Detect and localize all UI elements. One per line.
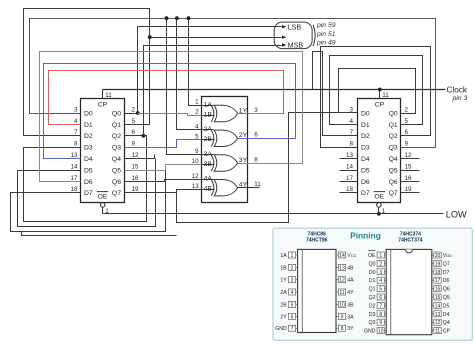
wire: bus drop to xor 2A — [177, 19, 202, 130]
register IC3 74HC374 (right) body — [358, 99, 401, 203]
xor G1 input wire 1B — [202, 115, 215, 117]
svg-text:pin 59: pin 59 — [316, 22, 336, 29]
svg-text:3B: 3B — [347, 302, 354, 308]
svg-text:3A: 3A — [347, 314, 354, 320]
svg-text:D7: D7 — [84, 190, 93, 197]
DIP20 left pin 4 box — [377, 277, 384, 283]
wire: IC3 Q5 stub — [401, 170, 420, 172]
svg-text:5: 5 — [291, 302, 294, 308]
svg-text:4: 4 — [74, 118, 78, 125]
net: IC3 Q1 wrap to IC3 D1 — [330, 56, 423, 125]
svg-text:10: 10 — [378, 329, 384, 335]
xor gate G4 input back-arc — [211, 180, 214, 196]
xor G1 input wire 1A — [202, 105, 214, 107]
svg-text:D7: D7 — [443, 270, 450, 276]
svg-text:18: 18 — [435, 270, 441, 276]
svg-text:D3: D3 — [369, 312, 376, 318]
junction Q1 tap to pin 51 arrow — [148, 35, 152, 39]
DIP20 left pin 10 box — [377, 328, 384, 334]
svg-text:pin 3: pin 3 — [452, 95, 468, 102]
xor gate G4 shape — [214, 180, 237, 196]
svg-text:13: 13 — [346, 152, 354, 159]
xor G2 input wire 2A — [202, 129, 214, 131]
DIP14 left pin 5 box — [288, 301, 295, 307]
svg-text:Q6: Q6 — [443, 287, 450, 293]
svg-text:2Y: 2Y — [280, 314, 287, 320]
xor G2 input wire 2B — [202, 139, 215, 141]
svg-text:Clock: Clock — [447, 85, 468, 94]
svg-text:20: 20 — [435, 253, 441, 259]
DIP14 left pin 2 box — [288, 264, 295, 270]
svg-text:Q4: Q4 — [389, 156, 398, 163]
svg-text:8: 8 — [341, 326, 344, 332]
wire: IC3 Q4 stub — [401, 158, 420, 160]
net: IC3 Q2 wrap to IC3 D3 — [321, 47, 431, 148]
svg-text:Q3: Q3 — [112, 145, 121, 152]
svg-text:16: 16 — [405, 175, 413, 182]
svg-text:D5: D5 — [84, 167, 93, 174]
wire: IC3 D2 feed drop — [313, 52, 358, 136]
xor gate G2 input back-arc — [211, 130, 214, 146]
junction bus to 3A feed — [165, 16, 169, 20]
svg-text:16: 16 — [435, 287, 441, 293]
net: xor 2Y to IC1 D4 (blue loop) — [44, 64, 296, 159]
IC1 OE inversion bubble — [100, 203, 105, 208]
junction bus to 2A feed — [175, 16, 179, 20]
svg-text:9: 9 — [341, 314, 344, 320]
svg-text:1B: 1B — [280, 265, 287, 271]
svg-text:2: 2 — [379, 261, 382, 267]
IC1 pin 11 clock stub — [102, 90, 104, 99]
svg-text:19: 19 — [435, 261, 441, 267]
svg-text:1: 1 — [195, 99, 199, 106]
wire: Q0 to xor 1B (red) — [138, 114, 202, 116]
svg-text:D0: D0 — [361, 110, 370, 117]
svg-text:17: 17 — [435, 278, 441, 284]
svg-text:12: 12 — [405, 152, 413, 159]
svg-text:8: 8 — [349, 141, 353, 148]
svg-text:D2: D2 — [361, 133, 370, 140]
connector brace — [313, 25, 315, 46]
svg-text:11: 11 — [435, 329, 440, 335]
svg-text:13: 13 — [339, 265, 345, 271]
svg-text:Q2: Q2 — [369, 295, 376, 301]
wire: Q7 drop, bottom run right, up to IC3 D0 line — [177, 113, 358, 223]
svg-text:4B: 4B — [347, 265, 354, 271]
arrowhead LSB — [282, 25, 286, 28]
svg-text:1B: 1B — [204, 111, 213, 118]
svg-text:8: 8 — [254, 156, 258, 163]
DIP20 left pin 6 box — [377, 294, 384, 300]
junction bus to 1A feed — [187, 16, 191, 20]
DIP14 left pin 7 box — [288, 325, 295, 331]
svg-text:15: 15 — [132, 163, 140, 170]
xor-pack IC2 74HC86 body — [202, 97, 248, 203]
svg-text:9: 9 — [132, 141, 136, 148]
svg-text:D3: D3 — [361, 145, 370, 152]
wire: xor 4Y output stub — [238, 187, 260, 189]
net: xor 1Y to IC1 D1 (red loop) — [49, 71, 284, 125]
svg-text:Q0: Q0 — [389, 110, 398, 117]
wire: clock line from IC1 CP across to Clock label — [103, 89, 446, 91]
svg-text:5: 5 — [405, 118, 409, 125]
svg-text:15: 15 — [435, 295, 441, 301]
xor G3 input wire 3B — [202, 164, 215, 166]
DIP14 right pin 14 box — [338, 252, 345, 258]
svg-text:Q0: Q0 — [369, 261, 376, 267]
svg-text:4B: 4B — [204, 186, 213, 193]
svg-text:2: 2 — [195, 109, 199, 116]
wire: bus drop to xor 3A — [167, 19, 202, 155]
svg-text:17: 17 — [346, 175, 354, 182]
DIP14 right pin 12 box — [338, 277, 345, 283]
DIP20 left pin 8 box — [377, 311, 384, 317]
DIP14 right pin 8 box — [338, 325, 345, 331]
wire: Q0 up to LSB arrow line — [138, 27, 282, 114]
svg-text:4A: 4A — [204, 176, 213, 183]
svg-text:1: 1 — [291, 253, 294, 259]
net: IC3 Q3 to bus y18 to IC1 D0 (top bus) — [30, 19, 436, 148]
connector oval (LSB/MSB tap group) — [274, 22, 312, 48]
svg-text:Q6: Q6 — [389, 179, 398, 186]
svg-text:9: 9 — [405, 141, 409, 148]
xor gate G3 shape — [214, 155, 237, 171]
svg-text:D2: D2 — [84, 133, 93, 140]
DIP20 right pin 13 box — [434, 311, 441, 317]
svg-text:8: 8 — [379, 312, 382, 318]
DIP14 left pin 6 box — [288, 313, 295, 319]
DIP14 left pin 4 box — [288, 289, 295, 295]
svg-text:D0: D0 — [369, 270, 376, 276]
net: IC1 Q1 up and around to IC1 D2 — [24, 9, 150, 136]
net: IC3 Q0 wrap to IC3 D0 — [339, 69, 416, 114]
wire: bottom nested stub (outer wrap) — [22, 232, 177, 236]
IC3 pin 11 clock stub — [379, 90, 381, 99]
svg-text:9: 9 — [379, 320, 382, 326]
svg-text:1A: 1A — [280, 253, 287, 259]
svg-text:CP: CP — [375, 102, 385, 109]
svg-text:6: 6 — [379, 295, 382, 301]
svg-text:2B: 2B — [204, 136, 213, 143]
svg-text:17: 17 — [70, 175, 78, 182]
svg-text:14: 14 — [346, 163, 354, 170]
svg-text:D5: D5 — [443, 303, 450, 309]
svg-text:12: 12 — [192, 173, 200, 180]
svg-text:D6: D6 — [84, 179, 93, 186]
svg-text:15: 15 — [405, 163, 413, 170]
svg-text:1: 1 — [382, 208, 386, 215]
svg-text:14: 14 — [70, 163, 78, 170]
svg-text:Q7: Q7 — [389, 190, 398, 197]
wire: Q2 up to MSB arrow line — [144, 46, 282, 136]
svg-text:2A: 2A — [204, 126, 213, 133]
DIP14 right pin 13 box — [338, 264, 345, 270]
net: IC1 Q7 to xor 4B jog — [125, 190, 202, 193]
xor G3 input wire 3A — [202, 154, 214, 156]
svg-text:LOW: LOW — [446, 209, 467, 219]
svg-text:7: 7 — [379, 303, 382, 309]
svg-text:2: 2 — [291, 265, 294, 271]
svg-text:2A: 2A — [280, 290, 287, 296]
DIP20 right pin 18 box — [434, 269, 441, 275]
IC3 OE inversion bubble — [377, 203, 382, 208]
svg-text:D6: D6 — [443, 278, 450, 284]
svg-text:D3: D3 — [84, 145, 93, 152]
svg-text:Q1: Q1 — [389, 122, 398, 129]
wire: IC1 Q3 to xor 2B (blue) — [125, 140, 202, 148]
DIP20 right pin 12 box — [434, 319, 441, 325]
DIP-14 package body (74HC86) — [298, 249, 336, 332]
wire: IC3 Q7 stub — [401, 192, 420, 194]
svg-text:1Y: 1Y — [280, 278, 287, 284]
wire: IC3 D5 stub — [340, 170, 358, 172]
DIP20 left pin 5 box — [377, 286, 384, 292]
wire: Q1 tap line to connector middle arrow — [150, 37, 282, 39]
net: xor 3Y to IC1 D6 (gray loop) — [40, 52, 303, 182]
svg-text:14: 14 — [339, 253, 345, 259]
svg-text:D1: D1 — [369, 278, 376, 284]
svg-text:1: 1 — [379, 253, 382, 259]
svg-text:1: 1 — [105, 208, 109, 215]
xor gate G1 shape — [214, 105, 237, 121]
svg-text:pin 51: pin 51 — [316, 31, 336, 38]
svg-text:11: 11 — [382, 92, 389, 99]
svg-text:Q4: Q4 — [443, 320, 450, 326]
svg-text:D0: D0 — [84, 110, 93, 117]
svg-text:4: 4 — [291, 290, 294, 296]
DIP-20 package body (74HC374) — [386, 249, 432, 334]
svg-text:74HCT374: 74HCT374 — [398, 237, 422, 243]
DIP14 right pin 9 box — [338, 313, 345, 319]
svg-text:14: 14 — [435, 303, 441, 309]
svg-text:Q1: Q1 — [112, 122, 121, 129]
svg-text:D1: D1 — [84, 122, 93, 129]
svg-text:OE: OE — [98, 193, 108, 200]
net: IC1 Q6 to xor 4A jog — [125, 180, 202, 182]
svg-text:13: 13 — [192, 183, 200, 190]
svg-text:12: 12 — [132, 152, 140, 159]
svg-text:CP: CP — [443, 329, 451, 335]
xor gate G1 input back-arc — [211, 105, 214, 121]
svg-text:Q1: Q1 — [369, 287, 376, 293]
wire: Q4 drop around bottom to IC1 D5 — [18, 159, 156, 227]
svg-text:OE: OE — [374, 193, 384, 200]
DIP14 right pin 10 box — [338, 301, 345, 307]
svg-text:5: 5 — [379, 287, 382, 293]
svg-text:pin 49: pin 49 — [316, 40, 336, 47]
DIP20 right pin 19 box — [434, 260, 441, 266]
svg-text:12: 12 — [435, 320, 441, 326]
svg-text:CP: CP — [98, 102, 108, 109]
svg-text:2B: 2B — [280, 302, 287, 308]
svg-text:D5: D5 — [361, 167, 370, 174]
svg-text:D4: D4 — [443, 312, 450, 318]
net: IC1 Q4 to xor 3A jog — [125, 155, 155, 159]
svg-text:GND: GND — [364, 329, 376, 335]
svg-text:3Y: 3Y — [347, 326, 354, 332]
DIP20 right pin 15 box — [434, 294, 441, 300]
svg-text:3Y: 3Y — [239, 157, 248, 164]
svg-text:OE: OE — [368, 253, 376, 259]
svg-text:GND: GND — [275, 326, 287, 332]
svg-text:Pinning: Pinning — [350, 230, 381, 240]
IC1 OE pin 1 wire to LOW rail — [102, 208, 104, 214]
svg-text:Q5: Q5 — [112, 167, 121, 174]
svg-text:4: 4 — [349, 118, 353, 125]
DIP14 right pin 11 box — [338, 289, 345, 295]
wire: LOW rail (both OE pins) — [103, 213, 444, 215]
DIP14 left pin 3 box — [288, 277, 295, 283]
svg-text:3: 3 — [379, 270, 382, 276]
pinning info box — [273, 228, 472, 340]
svg-text:3: 3 — [254, 107, 258, 114]
svg-text:7: 7 — [291, 326, 294, 332]
svg-text:Q7: Q7 — [112, 190, 121, 197]
net: IC1 Q2 wire with junction — [125, 135, 144, 137]
svg-text:2: 2 — [132, 106, 136, 113]
svg-text:13: 13 — [70, 152, 78, 159]
DIP20 right pin 20 box — [434, 252, 441, 258]
svg-text:3: 3 — [74, 106, 78, 113]
svg-text:16: 16 — [132, 175, 140, 182]
wire: bus drop to xor 1A — [189, 19, 202, 106]
DIP20 left pin 2 box — [377, 260, 384, 266]
svg-text:Q2: Q2 — [112, 133, 121, 140]
DIP20 left pin 9 box — [377, 319, 384, 325]
wire: IC3 Q6 stub — [401, 181, 420, 183]
svg-text:D4: D4 — [84, 156, 93, 163]
DIP20 left pin 1 box — [377, 252, 384, 258]
wire: Q6 drop around bottom to IC1 D7 — [11, 171, 166, 232]
svg-text:Q5: Q5 — [389, 167, 398, 174]
svg-text:4Y: 4Y — [347, 290, 354, 296]
svg-text:Q6: Q6 — [112, 179, 121, 186]
svg-text:3A: 3A — [204, 151, 213, 158]
svg-text:D4: D4 — [361, 156, 370, 163]
svg-text:D2: D2 — [369, 303, 376, 309]
svg-text:D7: D7 — [361, 190, 370, 197]
svg-text:74HCT86: 74HCT86 — [306, 237, 328, 243]
svg-text:Q3: Q3 — [369, 320, 376, 326]
svg-text:10: 10 — [339, 302, 345, 308]
DIP20 right pin 17 box — [434, 277, 441, 283]
svg-text:Q5: Q5 — [443, 295, 450, 301]
DIP20 left pin 3 box — [377, 269, 384, 275]
wire: IC1 Q5 to xor 3B (gray, jog) — [125, 165, 202, 171]
wire: IC3 D4 stub — [340, 158, 358, 160]
svg-text:Q2: Q2 — [389, 133, 398, 140]
svg-text:8: 8 — [74, 141, 78, 148]
IC3 OE pin 1 wire — [378, 208, 380, 214]
svg-text:Q3: Q3 — [389, 145, 398, 152]
wire: Q2 down around bottom to IC1 D3 — [24, 136, 147, 222]
svg-text:3: 3 — [291, 278, 294, 284]
DIP20 right pin 11 box — [434, 328, 441, 334]
DIP20 right pin 14 box — [434, 302, 441, 308]
svg-text:4: 4 — [379, 278, 382, 284]
svg-text:6: 6 — [254, 132, 258, 139]
arrowhead middle tap — [282, 36, 286, 39]
svg-text:Q4: Q4 — [112, 156, 121, 163]
svg-text:5: 5 — [132, 118, 136, 125]
svg-text:Q0: Q0 — [112, 110, 121, 117]
IC3 OE junction on LOW rail — [377, 212, 381, 216]
svg-text:11: 11 — [339, 290, 344, 296]
arrowhead MSB — [282, 43, 286, 46]
svg-text:4A: 4A — [347, 278, 354, 284]
svg-text:6: 6 — [291, 314, 294, 320]
DIP20 right pin 16 box — [434, 286, 441, 292]
svg-text:MSB: MSB — [288, 40, 304, 49]
svg-text:2: 2 — [405, 106, 409, 113]
net: IC1 Q0 wire with junction — [125, 113, 138, 115]
xor gate G3 input back-arc — [211, 155, 214, 171]
IC3 junction on clock line — [378, 88, 382, 92]
svg-text:11: 11 — [105, 92, 112, 99]
svg-text:D6: D6 — [361, 179, 370, 186]
svg-text:13: 13 — [435, 312, 441, 318]
svg-text:1A: 1A — [204, 101, 213, 108]
svg-text:D1: D1 — [361, 122, 370, 129]
DIP20 left pin 7 box — [377, 302, 384, 308]
DIP20 OE overline — [368, 250, 375, 252]
svg-text:LSB: LSB — [288, 23, 302, 32]
xor G4 input wire 4A — [202, 179, 214, 181]
svg-text:12: 12 — [339, 278, 345, 284]
svg-text:Q7: Q7 — [443, 261, 450, 267]
wire: IC3 D6 stub — [340, 181, 358, 183]
svg-text:3B: 3B — [204, 161, 213, 168]
xor G4 input wire 4B — [202, 189, 215, 191]
wire: IC3 D7 stub — [340, 192, 358, 194]
DIP14 left pin 1 box — [288, 252, 295, 258]
xor gate G2 shape — [214, 130, 237, 146]
register IC1 74HC374 (left) body — [81, 99, 125, 203]
